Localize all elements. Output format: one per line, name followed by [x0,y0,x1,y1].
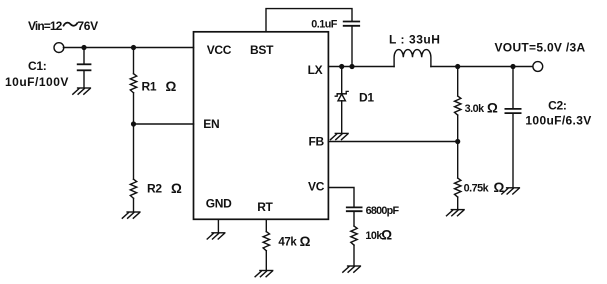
resistor R2 [130,124,136,212]
node junction FB/divider [455,139,460,144]
svg-text:Ω: Ω [171,181,182,196]
output terminal VOUT [533,62,543,72]
wire EN [134,123,194,125]
label Vin=12~76V [28,19,98,33]
ground (C1) [73,88,91,94]
node junction C1/Vin [81,45,86,50]
svg-text:100uF/6.3V: 100uF/6.3V [525,113,591,127]
svg-text:R2: R2 [147,182,162,196]
svg-text:Ω: Ω [166,79,177,94]
svg-text:6800pF: 6800pF [366,205,400,217]
ground (47k) [255,271,273,277]
capacitor C2 [505,67,520,188]
ground (10k) [343,266,361,272]
wire FB [329,141,458,143]
wire BST bootstrap [266,9,352,32]
svg-text:L : 33uH: L : 33uH [389,33,441,47]
wire Vin rail [63,47,193,49]
node junction D1/LX [339,64,344,69]
svg-text:VCC: VCC [207,43,232,57]
label R1 [142,79,177,94]
svg-text:10uF/100V: 10uF/100V [5,75,69,89]
svg-text:RT: RT [257,200,273,214]
inductor L [394,50,431,67]
capacitor C1 [78,48,91,88]
svg-text:R1: R1 [142,80,157,94]
resistor R1 [130,48,136,125]
svg-text:47k: 47k [278,237,297,249]
svg-text:EN: EN [203,117,219,131]
svg-text:C2:: C2: [548,98,566,112]
svg-text:GND: GND [206,196,232,210]
svg-text:VC: VC [308,180,325,194]
wire VOUT rail [431,66,533,68]
wide tilde of Vin label [64,23,78,26]
label R2 [147,181,182,196]
svg-text:76V: 76V [77,19,98,33]
op-amp U1 IC body [194,32,329,220]
resistor 3.0k [455,67,461,142]
node junction R1/Vin [131,45,136,50]
svg-text:VOUT=5.0V /3A: VOUT=5.0V /3A [495,41,586,55]
svg-text:3.0k: 3.0k [465,103,486,115]
wire LX [329,66,395,68]
svg-text:Vin=12: Vin=12 [28,19,63,33]
node junction EN/R1/R2 [131,121,136,126]
ground (C2) [502,188,520,194]
value 10k ohm [365,228,392,243]
ground (D1) [331,133,349,139]
svg-text:C1:: C1: [28,59,46,73]
ground (0.75k) [447,210,465,216]
svg-text:0.75k: 0.75k [464,183,490,195]
resistor 10k [351,226,357,266]
value 3.0k ohm [465,101,498,116]
svg-text:Ω: Ω [381,228,392,243]
ground (GND pin) [207,233,225,239]
resistor 0.75k [455,142,461,210]
resistor 47k (RT) [263,219,269,270]
svg-text:Ω: Ω [487,101,498,116]
node junction 0.1uF/LX [349,64,354,69]
wire GND pin [217,219,219,232]
svg-text:D1: D1 [359,91,374,105]
svg-text:0.1uF: 0.1uF [311,19,338,31]
svg-text:LX: LX [308,63,323,77]
value 47k ohm [278,234,310,249]
wire VC [329,188,355,208]
svg-text:FB: FB [309,134,325,148]
node junction C2/VOUT [510,64,515,69]
input terminal Vin [54,43,64,53]
diode D1 schottky [335,67,348,134]
node junction divider/VOUT [455,64,460,69]
svg-text:Ω: Ω [494,180,505,195]
ground (R2) [122,212,140,218]
svg-text:Ω: Ω [300,234,311,249]
capacitor 0.1uF [344,22,360,67]
capacitor 6800pF [347,207,362,226]
svg-text:BST: BST [250,43,274,57]
value 0.75k ohm [464,180,505,195]
